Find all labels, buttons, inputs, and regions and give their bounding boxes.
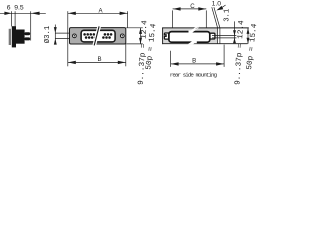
mounting hole right: [120, 34, 124, 38]
rear outer rect left edge: [162, 28, 164, 45]
mounting hole left: [73, 34, 77, 38]
arrow down to 35.6: [233, 30, 236, 35]
ext line right A: [127, 11, 129, 27]
arrow down: [247, 38, 250, 44]
arrow up: [139, 28, 142, 34]
front flange (gray): [70, 28, 126, 44]
arrow A left: [68, 12, 76, 15]
rear outer rect bottom edge: [162, 43, 247, 45]
tongue lines through right tab: [212, 35, 236, 37]
ext lines: [126, 27, 143, 29]
arrow B right: [216, 62, 224, 65]
dim line 6/9.5: [0, 11, 46, 40]
rear outer rect top edge: [162, 28, 249, 45]
side view front lip (gray): [9, 29, 11, 45]
break white quad lower: [188, 41, 197, 44]
pins bottom row right: [102, 36, 111, 39]
rear left tab: [164, 33, 169, 39]
svg-text:B: B: [192, 58, 196, 65]
pins bottom row left: [85, 36, 97, 39]
side view body (black): [16, 30, 25, 44]
side view contact pin upper: [24, 32, 30, 35]
break slash line: [94, 26, 99, 45]
dim line A: [68, 12, 128, 14]
arrow down: [139, 38, 142, 44]
rear shell outline (thick rounded rect): [169, 32, 210, 43]
arrow B left: [171, 62, 179, 65]
pins top row left: [83, 33, 95, 36]
arrow left at x=30.7: [31, 12, 40, 15]
svg-text:rear side mounting: rear side mounting: [170, 72, 217, 79]
pins top row right: [104, 33, 113, 36]
ext line right B: [125, 44, 127, 66]
break gap patch shell bottom: [192, 41, 197, 44]
arrow up to 37.9: [233, 38, 236, 43]
leader lines slanted: [212, 7, 218, 28]
side view contact pin lower: [24, 37, 30, 40]
arrow B left: [68, 61, 76, 64]
svg-text:Ø3.1: Ø3.1: [43, 25, 52, 43]
panel edge lines: [217, 28, 219, 44]
break white quad upper: [189, 27, 200, 32]
svg-text:B: B: [97, 56, 101, 63]
svg-text:C: C: [190, 3, 195, 10]
arrow right at x=11.4: [4, 12, 11, 15]
dim line B front: [68, 61, 126, 63]
svg-text:6: 6: [7, 5, 11, 12]
arrow C left: [173, 7, 181, 10]
break diagonal mark on rear rect top edge: [195, 27, 199, 29]
rear body gray fill: [163, 28, 218, 44]
ext line left: [67, 11, 69, 66]
svg-text:3.1: 3.1: [224, 9, 232, 22]
dim dia3.1 lines: [55, 25, 72, 45]
arrow C right: [198, 7, 206, 10]
svg-text:9.5: 9.5: [14, 5, 24, 12]
arrow B right: [118, 61, 126, 64]
svg-text:1.0: 1.0: [212, 1, 222, 8]
break gap patch shell top: [189, 30, 193, 33]
rear right tab: [210, 33, 215, 39]
side view flange (black): [12, 26, 16, 47]
arrow 1.0: [216, 6, 223, 10]
arrow up: [247, 28, 250, 34]
arrow A right: [120, 12, 128, 15]
dim line vertical: [140, 28, 142, 44]
D insert: [81, 30, 115, 42]
dim dia3.1 arrows: [54, 27, 57, 33]
break band white: [92, 26, 101, 45]
